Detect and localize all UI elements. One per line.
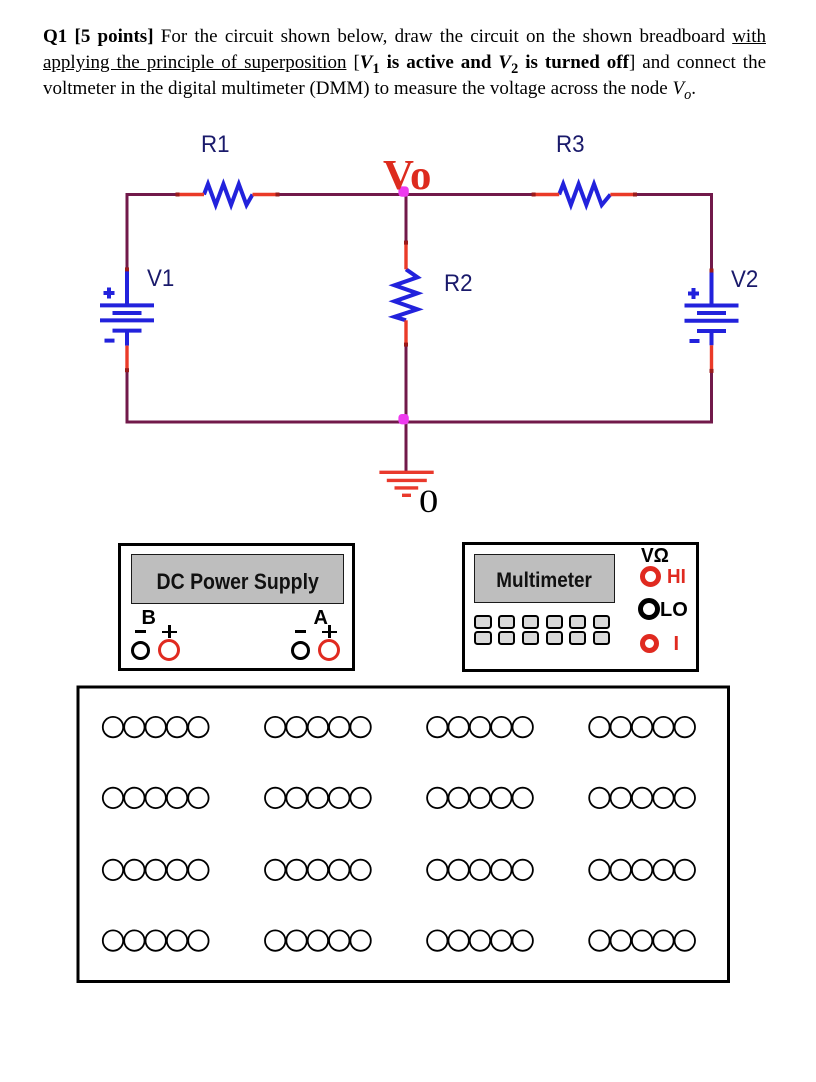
battery V2 pin -: [710, 369, 714, 373]
terminal A black jack: [291, 641, 310, 660]
ground: [379, 472, 433, 495]
wire middle vertical: [405, 195, 408, 423]
battery V1 pin +: [125, 267, 129, 271]
DC power supply display: [131, 554, 344, 604]
wire top-left segment: [126, 193, 178, 196]
multimeter HI jack: [640, 566, 661, 587]
multimeter keypad: [0, 0, 816, 1]
label R2: [444, 272, 473, 296]
resistor R3 pin 1: [532, 193, 536, 197]
terminal A minus: [295, 630, 306, 633]
multimeter display: [474, 554, 615, 603]
label R1: [201, 133, 230, 157]
battery V1: [100, 269, 154, 345]
circuit schematic svg: [0, 0, 816, 560]
bottom junction dot: [398, 414, 408, 424]
label R3: [556, 133, 585, 157]
resistor R2: [395, 269, 418, 320]
terminal A label: [314, 608, 328, 628]
breadboard frame: [78, 687, 729, 982]
resistor R1 leads: [178, 193, 278, 196]
wire left vertical: [126, 193, 129, 422]
battery V1 pin -: [125, 368, 129, 372]
DC power supply box: [118, 543, 356, 671]
wire ground stem: [405, 422, 408, 472]
multimeter box: [462, 542, 700, 672]
battery V1 bottom red lead: [125, 346, 128, 371]
battery V2: [685, 271, 739, 346]
terminal B red jack: [158, 639, 180, 661]
wire bottom: [126, 421, 714, 424]
multimeter LO label: [660, 600, 688, 620]
resistor R2 leads: [404, 243, 407, 345]
resistor R2 pin 2: [404, 343, 408, 347]
resistor R1: [204, 184, 253, 205]
terminal B plus: [162, 631, 178, 634]
terminal B label: [142, 608, 156, 628]
label V2: [731, 268, 758, 292]
resistor R3 leads: [534, 193, 635, 196]
terminal A red jack: [318, 639, 340, 661]
breadboard: [0, 662, 816, 1082]
multimeter VΩ label: [641, 546, 669, 566]
multimeter I label: [674, 634, 680, 654]
resistor R3: [559, 184, 610, 205]
resistor R3 pin 2: [633, 193, 637, 197]
question text: [43, 24, 766, 102]
terminal B minus: [135, 630, 146, 633]
battery V2 bottom red lead: [710, 345, 713, 371]
resistor R2 pin 1: [404, 241, 408, 245]
resistor R1 pin 2: [276, 193, 280, 197]
breadboard holes: [103, 717, 695, 951]
terminal A plus: [322, 631, 337, 634]
node Vo label: [383, 155, 431, 197]
terminal B black jack: [131, 641, 150, 660]
wire right vertical: [710, 193, 713, 422]
wire top-middle segment (R1 to R3): [278, 193, 534, 196]
multimeter I jack: [640, 634, 659, 653]
label V1: [147, 267, 174, 291]
wire top-right segment: [635, 193, 712, 196]
battery V2 pin +: [710, 269, 714, 273]
node Vo junction dot: [398, 186, 408, 196]
resistor R1 pin 1: [176, 193, 180, 197]
multimeter HI label: [667, 567, 686, 587]
multimeter LO jack: [638, 598, 660, 620]
ground 0 label: [419, 486, 438, 519]
